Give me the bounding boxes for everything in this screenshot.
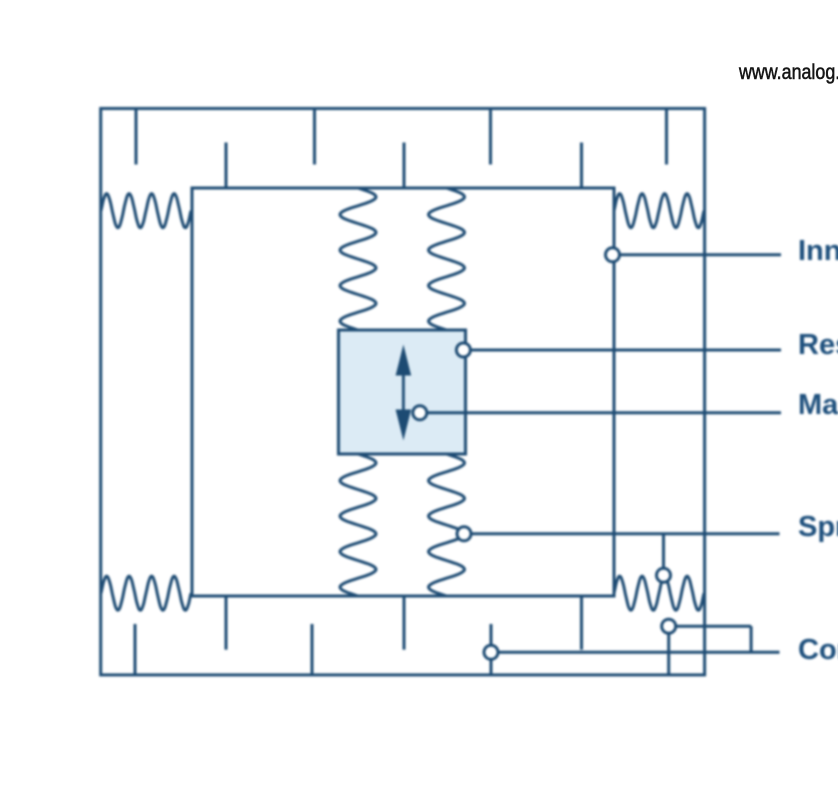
comb finger top inner 3 <box>580 143 583 189</box>
spring upper-left <box>340 188 376 330</box>
comb finger bottom outer 4 <box>667 630 670 675</box>
label Coriolis <box>798 636 838 665</box>
spring upper-right <box>429 188 465 330</box>
corner spring bottom-left <box>101 576 191 610</box>
comb finger top outer 1 <box>135 109 138 165</box>
spring lower-left <box>340 454 376 596</box>
comb finger bottom inner 3 <box>580 596 583 650</box>
comb finger bottom outer 2 <box>311 624 314 675</box>
comb finger bottom inner 1 <box>225 596 228 650</box>
spring lower-right <box>429 454 465 596</box>
comb finger top inner 2 <box>403 143 406 189</box>
node mass drive <box>413 406 427 420</box>
wire mass-drive label <box>420 411 781 414</box>
comb finger top outer 4 <box>665 109 668 165</box>
corner spring bottom-right <box>614 576 704 610</box>
wire resonating-mass label <box>463 349 781 352</box>
comb finger bottom outer 3 <box>490 624 493 675</box>
comb finger bottom outer 1 <box>134 624 137 675</box>
wire coriolis branch vertical <box>750 626 753 652</box>
label Mass <box>798 391 838 420</box>
node springs corner <box>657 568 671 582</box>
wire springs label <box>464 532 780 535</box>
comb finger top outer 2 <box>313 109 316 165</box>
wire inner-frame label <box>613 253 782 256</box>
node resonating mass <box>456 343 470 357</box>
node coriolis right <box>662 619 676 633</box>
inner frame <box>192 188 614 596</box>
node inner frame <box>606 248 620 262</box>
label Springs <box>798 513 838 542</box>
label Resonating <box>798 331 838 360</box>
comb finger top inner 1 <box>225 143 228 189</box>
node coriolis left <box>484 645 498 659</box>
watermark url text <box>739 60 838 86</box>
corner spring top-right <box>614 194 704 228</box>
label Inner <box>798 237 838 266</box>
wire springs branch <box>662 534 665 575</box>
outer frame <box>101 109 705 675</box>
comb finger bottom inner 2 <box>403 596 406 650</box>
wire coriolis branch horizontal <box>669 625 751 628</box>
node springs upper <box>457 527 471 541</box>
comb finger top outer 3 <box>489 109 492 165</box>
corner spring top-left <box>101 194 191 228</box>
drive direction arrow <box>396 345 412 441</box>
resonating mass <box>339 330 466 454</box>
wire coriolis label <box>491 651 780 654</box>
